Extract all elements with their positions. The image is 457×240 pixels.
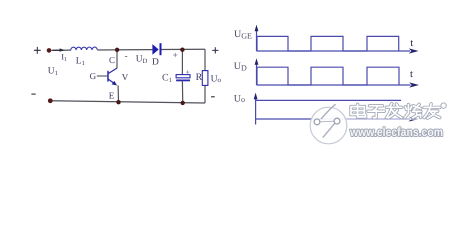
svg-text:L1: L1 [76,57,85,68]
label minus input [31,93,35,95]
watermark chinese character shao [405,104,421,117]
watermark chinese character dian [351,104,366,117]
svg-text:R: R [196,72,203,83]
node dot emitter bottom junction [116,100,120,104]
label R [196,72,203,83]
label E emitter [109,91,115,101]
svg-text:V: V [122,72,129,82]
node dot input bottom [48,98,53,103]
svg-text:UD: UD [234,61,247,72]
wire top (input to output rail) [52,49,206,50]
svg-text:-: - [125,50,128,60]
label C collector [109,55,115,65]
svg-text:UD: UD [136,54,148,64]
waveform Uo dc level line [256,99,401,101]
label Uo output [211,74,222,84]
current arrow I1 on top wire [53,48,65,51]
svg-text:I1: I1 [61,52,67,63]
svg-text:UGE: UGE [234,29,252,40]
svg-text:U1: U1 [48,67,58,78]
node dot capacitor bottom junction [181,101,185,105]
waveform UD time axis [257,82,420,87]
waveform UGE time axis [257,48,419,53]
svg-text:D: D [152,58,159,68]
svg-text:t: t [410,69,413,80]
watermark chinese character you [424,104,440,118]
label minus UD left [125,50,128,60]
inductor L1 coil [71,47,98,50]
label L1 [76,57,85,68]
wire emitter vertical [117,85,119,102]
label G gate [90,71,97,81]
wire capacitor branch vertical [181,50,183,103]
label D diode [152,58,159,68]
svg-text:Uo: Uo [211,74,222,84]
svg-text:C: C [109,55,115,65]
wire collector vertical [116,50,118,68]
watermark chinese character zi [368,106,384,118]
diode D [152,43,161,55]
label C1 [162,73,172,85]
svg-text:+: + [186,68,190,77]
svg-text:+: + [173,50,178,60]
waveform UGE square wave [257,36,399,51]
label UGE [234,29,252,40]
label t axis UD [410,69,413,80]
watermark logo circle [310,104,347,144]
label UD voltage [136,54,148,64]
svg-text:t: t [410,38,413,49]
wire right branch (resistor R branch vertical) [204,49,206,103]
label UD [234,61,247,72]
capacitor plus sign [186,68,190,77]
label plus UD right [173,50,178,60]
label Uo [234,94,245,105]
svg-text:www.elecfans.com: www.elecfans.com [349,125,443,139]
resistor R body [202,71,208,86]
label U1 [48,67,58,78]
label plus input [34,47,41,54]
svg-text:Uo: Uo [234,94,245,105]
label minus output [211,96,215,98]
svg-text:G: G [90,71,97,81]
wire bottom return rail [52,101,206,103]
label plus output [212,47,218,53]
node dot collector junction [115,48,119,52]
watermark white band under chinese text [346,103,445,121]
waveform Uo axis vertical with arrow [254,93,258,125]
capacitor C1 plates [176,75,190,82]
waveform Uo time axis [256,116,419,121]
label I1 [61,52,67,63]
waveform UD axis vertical with arrow [255,58,259,85]
watermark chinese character fa [386,104,401,118]
svg-text:C1: C1 [162,73,172,85]
transistor V (IGBT) [108,68,117,85]
label V transistor [122,72,129,82]
wire gate lead [97,75,108,77]
watermark registered mark [441,103,446,108]
svg-text:E: E [109,91,115,101]
watermark url www.elecfans.com [349,125,443,139]
node dot capacitor top junction [180,48,184,52]
waveform UD square wave [257,67,399,85]
node dot input top [47,48,52,53]
waveform UGE axis vertical with arrow [255,25,259,51]
label t axis UGE [410,38,413,49]
